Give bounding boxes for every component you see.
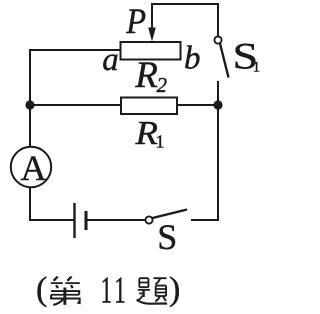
wire left vertical lower — [29, 187, 31, 221]
wire R1 row left — [30, 104, 121, 106]
svg-text:a: a — [102, 42, 119, 78]
wire slider top horizontal — [151, 3, 219, 5]
caption hanzi DI (第) drawn as strokes — [51, 277, 80, 305]
wire right vertical top (to S1) — [217, 3, 219, 36]
switch S blade — [153, 210, 188, 219]
svg-text:2: 2 — [157, 73, 168, 97]
wire switch S to bottom-right corner — [191, 219, 219, 221]
battery short plate — [85, 211, 88, 230]
wire top-left horizontal — [30, 49, 121, 51]
svg-text:A: A — [21, 148, 47, 188]
switch S1 pivot circle — [214, 36, 221, 43]
svg-text:1: 1 — [114, 269, 126, 311]
svg-text:P: P — [125, 1, 146, 41]
switch S1 blade — [220, 44, 229, 78]
ammeter A circle — [11, 147, 51, 187]
svg-text:): ) — [169, 271, 180, 308]
svg-text:1: 1 — [156, 132, 165, 152]
svg-text:b: b — [184, 41, 201, 77]
slider wire vertical with arrowhead — [151, 4, 153, 29]
svg-text:R: R — [134, 55, 158, 96]
wire bottom left — [29, 219, 74, 221]
wire right vertical lower — [217, 105, 219, 221]
svg-text:1: 1 — [100, 269, 112, 311]
resistor R1 box — [121, 98, 177, 115]
switch S pivot circle — [145, 216, 152, 223]
wire R1 row right — [177, 104, 218, 106]
junction node left — [25, 100, 34, 109]
wire left vertical upper — [29, 49, 31, 147]
wire battery to switch S — [87, 219, 146, 221]
junction node right — [213, 100, 222, 109]
slider arrowhead — [148, 28, 156, 42]
svg-text:S: S — [157, 217, 177, 257]
svg-text:(: ( — [36, 271, 47, 308]
caption hanzi TI (题) drawn as strokes — [137, 278, 167, 304]
battery long plate — [73, 203, 75, 238]
svg-text:1: 1 — [253, 60, 260, 76]
wire right vertical mid (junction to S1 blade end) — [217, 81, 219, 105]
rheostat R2 box — [121, 42, 181, 60]
